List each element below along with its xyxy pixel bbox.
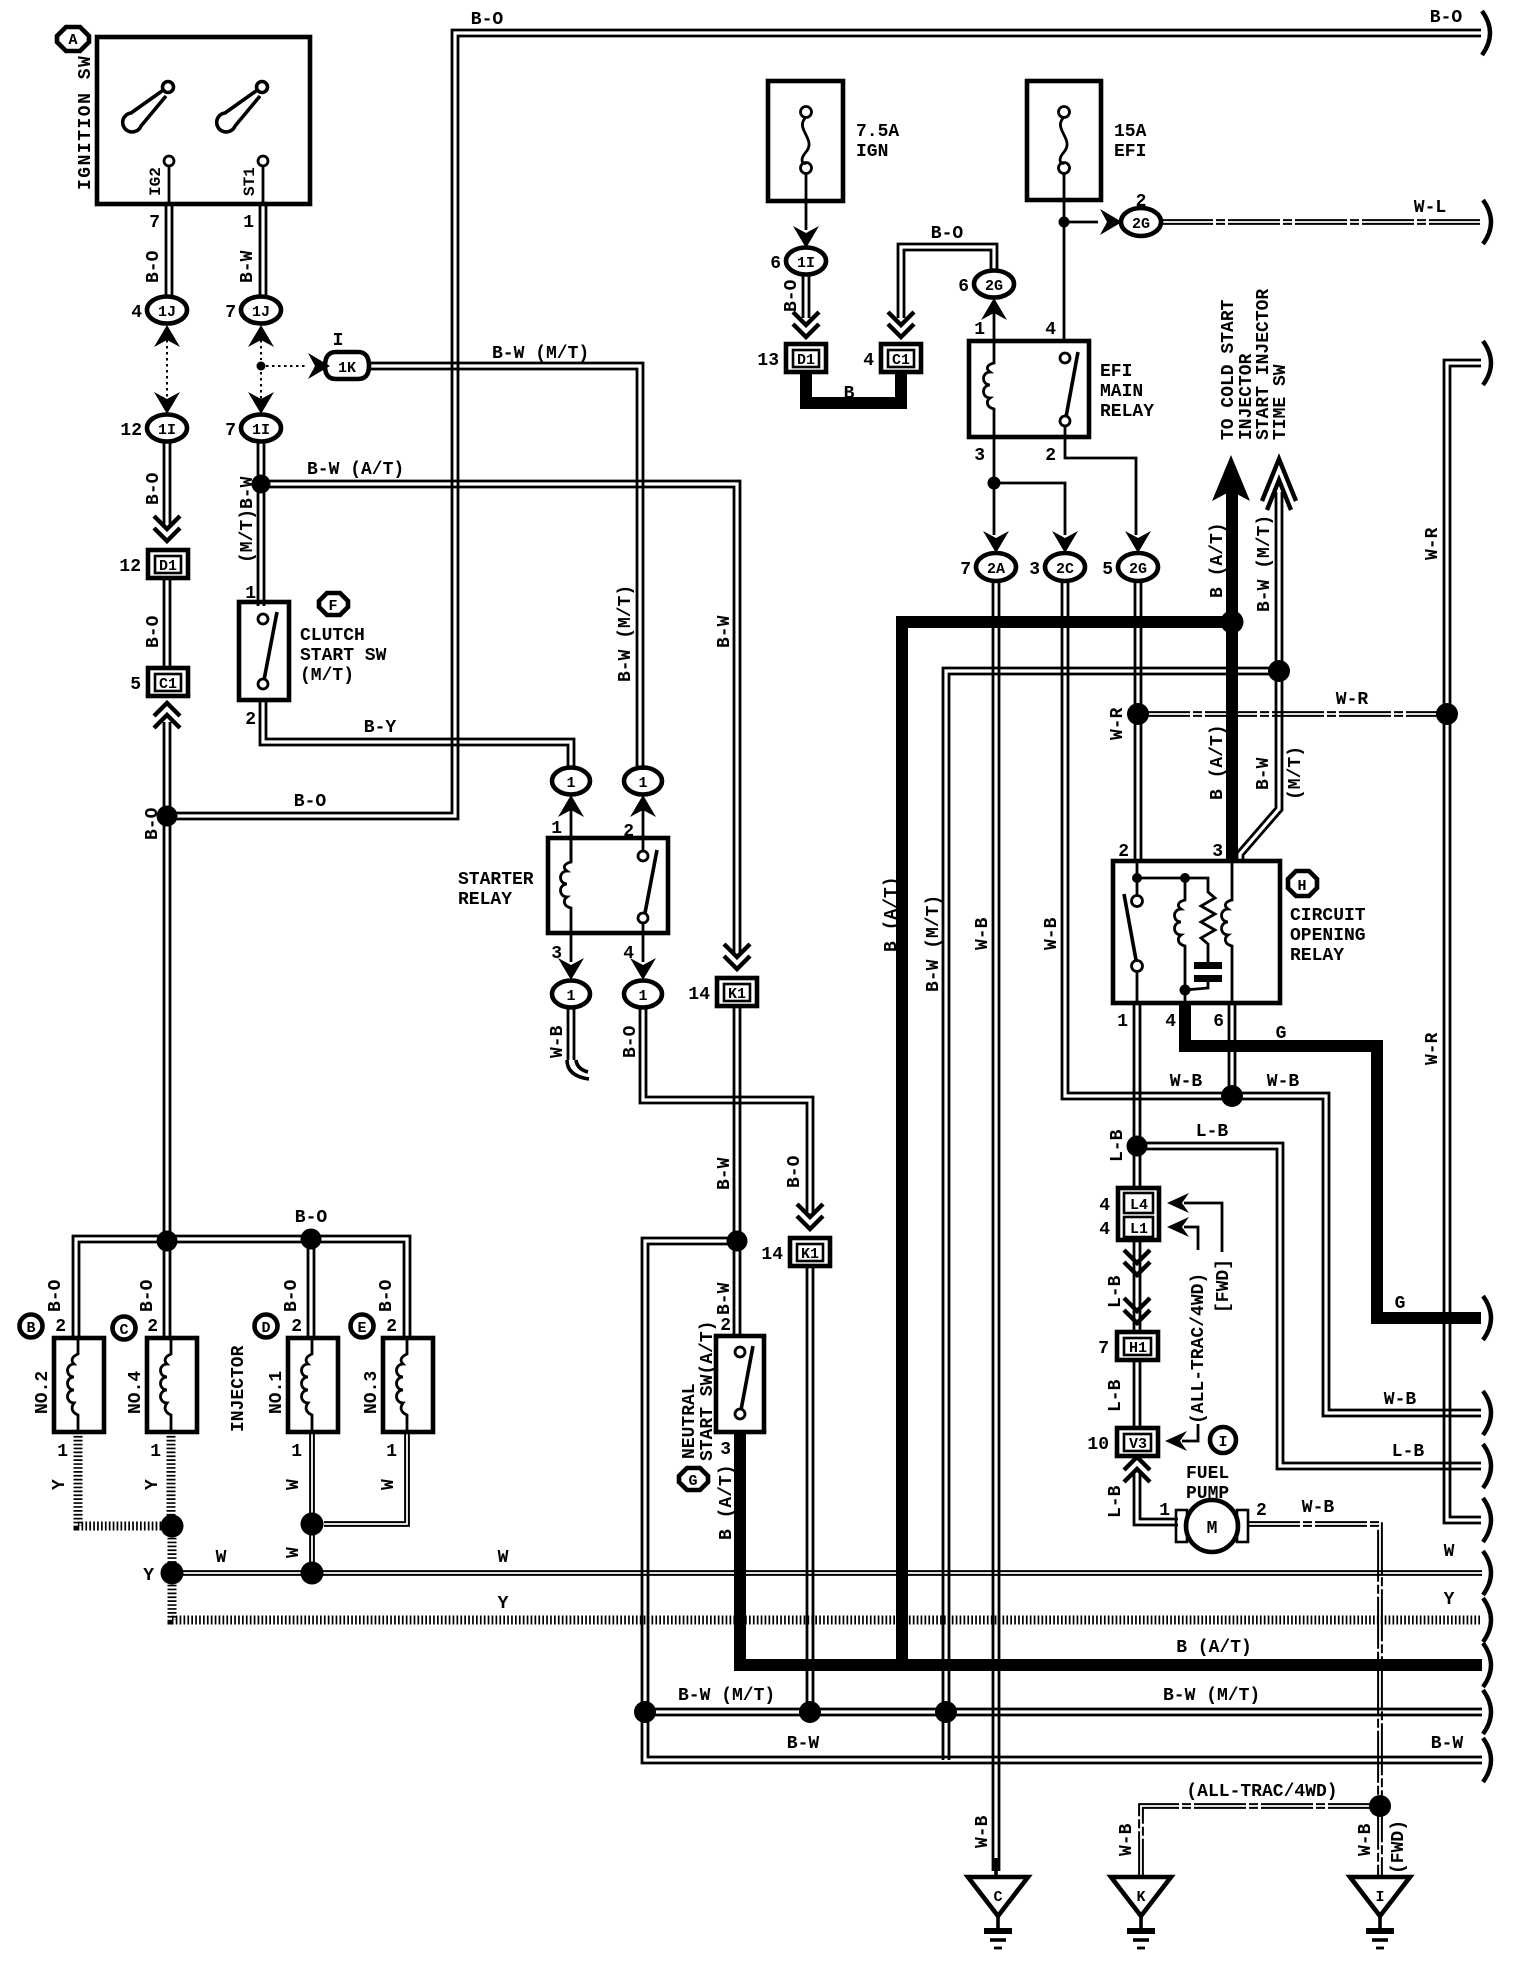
svg-text:W-B: W-B — [1170, 1072, 1203, 1092]
wire 1I to D1 — [803, 274, 809, 318]
svg-text:4: 4 — [1045, 320, 1056, 340]
svg-text:W-R: W-R — [1108, 707, 1128, 740]
wire B-O node down to injectors — [164, 816, 170, 1241]
label FUEL PUMP — [1186, 1464, 1229, 1504]
svg-text:2: 2 — [55, 1317, 66, 1337]
wire G thick from pin4 — [1185, 1003, 1481, 1318]
svg-text:B-W (M/T): B-W (M/T) — [492, 344, 589, 364]
node on ST1 dotted wire — [257, 362, 266, 371]
svg-text:D: D — [261, 1320, 270, 1337]
wire L-B across to exit — [1137, 1143, 1481, 1469]
wire 2G down to relay pin2 — [1135, 581, 1141, 861]
node B-W at 1241 — [727, 1231, 748, 1252]
svg-text:CIRCUIT: CIRCUIT — [1290, 906, 1366, 926]
svg-text:B-W: B-W — [1254, 757, 1274, 790]
svg-text:2: 2 — [386, 1317, 397, 1337]
svg-text:7: 7 — [225, 303, 236, 323]
svg-text:B: B — [26, 1320, 35, 1337]
node bus corner B-W (M/T) — [634, 1701, 656, 1723]
dotted wire 1J-1I (ST1) — [260, 340, 262, 360]
svg-text:1: 1 — [150, 1442, 161, 1462]
svg-text:4: 4 — [1165, 1012, 1176, 1032]
node B (A/T) — [1221, 611, 1244, 634]
wire B-W (M/T) across to left riser — [943, 668, 1279, 1760]
wire relay pin4 down — [642, 933, 645, 962]
svg-text:B-O: B-O — [621, 1025, 641, 1058]
wire B-Y clutch to starter relay pin1 — [260, 700, 574, 770]
svg-text:F: F — [328, 598, 337, 615]
svg-text:7: 7 — [1098, 1339, 1109, 1359]
svg-text:IGN: IGN — [856, 142, 888, 162]
wire pin6 to W-B node — [1229, 1003, 1235, 1096]
svg-text:5: 5 — [130, 675, 141, 695]
svg-text:W: W — [379, 1479, 399, 1490]
wire W-R across — [1138, 712, 1447, 716]
circuit opening relay resistor — [1185, 878, 1215, 962]
svg-text:B-W: B-W — [715, 1157, 735, 1190]
svg-text:L4: L4 — [1130, 1197, 1148, 1214]
svg-text:B-O: B-O — [785, 1155, 805, 1188]
svg-text:1I: 1I — [252, 422, 270, 439]
svg-text:B-W: B-W — [787, 1734, 820, 1754]
exit arc B-O top — [1482, 11, 1490, 55]
arrow down into 1I — [793, 226, 819, 248]
svg-text:2A: 2A — [987, 561, 1005, 578]
chevron arrow into D1 — [154, 516, 180, 541]
svg-text:L-B: L-B — [1106, 1485, 1126, 1518]
wire B (A/T) thick left riser to bus — [896, 616, 908, 1665]
injector No.1 — [267, 1338, 338, 1432]
wire pin1 down to L-B node — [1134, 1003, 1140, 1146]
svg-text:E: E — [357, 1320, 366, 1337]
svg-text:B (A/T): B (A/T) — [1208, 522, 1228, 598]
chevron arrows above H1 — [1124, 1298, 1150, 1323]
connector K1 (14, upper) — [688, 978, 757, 1006]
node pin3 splits — [988, 477, 1001, 490]
ignition sw contact IG2 — [147, 156, 174, 204]
svg-text:1J: 1J — [158, 304, 176, 321]
svg-text:1: 1 — [638, 988, 647, 1005]
svg-text:2C: 2C — [1056, 561, 1074, 578]
wire C1 down to node — [164, 722, 170, 816]
connector H1 (7) — [1098, 1332, 1158, 1360]
connector 2C (3) — [1029, 553, 1085, 581]
svg-text:B-O: B-O — [295, 1208, 328, 1228]
svg-text:2G: 2G — [985, 278, 1003, 295]
wire node down to clutch sw pin1 — [258, 484, 264, 606]
svg-text:4: 4 — [863, 351, 874, 371]
svg-text:1J: 1J — [252, 304, 270, 321]
svg-text:B (A/T): B (A/T) — [717, 1464, 737, 1540]
svg-text:Y: Y — [143, 1566, 154, 1586]
exit arc Y — [1483, 1598, 1491, 1642]
svg-text:3: 3 — [1029, 560, 1040, 580]
wire B-O node to riser — [167, 30, 1481, 819]
svg-text:IG2: IG2 — [147, 167, 165, 196]
svg-text:V3: V3 — [1129, 1436, 1147, 1453]
wire Y bus (shielded) — [172, 1573, 1482, 1620]
connector 1 (starter relay pin1) — [552, 768, 590, 795]
wire branch left to bus riser — [642, 1238, 1482, 1763]
circuit opening relay capacitor — [1185, 962, 1222, 990]
svg-text:G: G — [1276, 1024, 1287, 1044]
node Y 2 — [161, 1562, 184, 1585]
connector 2A (7) — [960, 553, 1016, 581]
connector 1 (below pin3) — [552, 981, 590, 1008]
svg-text:B-O: B-O — [282, 1279, 302, 1312]
svg-text:C: C — [119, 1322, 128, 1339]
wire W tail No.1 — [310, 1432, 314, 1573]
injector No.4 — [126, 1338, 197, 1432]
wire ST1 to 1J — [260, 204, 266, 296]
svg-text:1: 1 — [291, 1442, 302, 1462]
svg-text:B-O: B-O — [782, 279, 802, 312]
svg-text:Y: Y — [50, 1479, 70, 1490]
svg-text:G: G — [1395, 1294, 1406, 1314]
svg-text:W-B: W-B — [973, 1815, 993, 1848]
node K1 wire at bus — [799, 1701, 821, 1723]
connector K1 (14, lower) — [761, 1238, 830, 1266]
wire H1 to V3 — [1134, 1360, 1140, 1428]
svg-text:13: 13 — [757, 351, 779, 371]
svg-text:1: 1 — [243, 213, 254, 233]
svg-text:C1: C1 — [892, 352, 910, 369]
connector 1 (starter relay pin2) — [624, 768, 662, 795]
label EFI MAIN RELAY — [1100, 362, 1154, 422]
svg-text:7: 7 — [960, 560, 971, 580]
circuit opening relay coil 1 — [1137, 873, 1190, 990]
injector circle D — [255, 1315, 278, 1338]
svg-text:1: 1 — [1117, 1012, 1128, 1032]
svg-text:4: 4 — [1099, 1220, 1110, 1240]
chevron arrow into C1 — [888, 312, 914, 337]
exit arc W-B — [1483, 1391, 1491, 1435]
wire 1I down (IG2) — [164, 441, 170, 528]
wire Y tail No.2 (shielded) — [78, 1432, 169, 1526]
svg-text:B-W (M/T): B-W (M/T) — [616, 585, 636, 682]
exit arc B-W (M/T) — [1483, 1690, 1491, 1734]
wire K1 upper down to node — [734, 1006, 740, 1241]
wire 2A down to ground C — [993, 581, 999, 1871]
svg-text:W-R: W-R — [1336, 690, 1369, 710]
exit arc W-L — [1483, 200, 1491, 244]
svg-text:7: 7 — [149, 213, 160, 233]
svg-text:START SW(A/T): START SW(A/T) — [698, 1321, 718, 1461]
arrow B-W (M/T) up (open) — [1262, 459, 1296, 510]
svg-text:7: 7 — [225, 421, 236, 441]
wire fuse to 1I — [805, 201, 808, 230]
node B-O at No.1 drop — [301, 1229, 322, 1250]
ground K — [1111, 1877, 1171, 1948]
connector C1 (4) — [863, 344, 921, 372]
node B-O at No.4 drop — [157, 1231, 178, 1252]
svg-text:L1: L1 — [1130, 1221, 1148, 1238]
connector V3 (10) — [1087, 1428, 1158, 1456]
svg-text:1: 1 — [1159, 1501, 1170, 1521]
svg-text:B-W (M/T): B-W (M/T) — [924, 895, 944, 992]
label TO COLD START INJECTOR / START INJECTOR TIME SW — [1219, 289, 1291, 440]
svg-text:I: I — [1375, 1889, 1384, 1906]
neutral start switch G — [716, 1336, 764, 1432]
svg-text:Y: Y — [143, 1479, 163, 1490]
arrow up into 1J (ST1) — [248, 325, 274, 347]
svg-text:4: 4 — [1099, 1196, 1110, 1216]
wire B (A/T) neutral sw to bus — [734, 1432, 746, 1671]
dotted wire node to down arrow — [260, 372, 262, 400]
label CIRCUIT OPENING RELAY — [1290, 906, 1366, 966]
wire B-O injector distribution — [73, 1236, 410, 1340]
exit arc G — [1483, 1296, 1491, 1340]
svg-text:1: 1 — [57, 1442, 68, 1462]
svg-text:Y: Y — [1444, 1590, 1455, 1610]
svg-text:2: 2 — [291, 1317, 302, 1337]
svg-text:NO.3: NO.3 — [362, 1371, 382, 1414]
svg-text:IGNITION SW: IGNITION SW — [76, 55, 96, 190]
node W at No.1/No.3 — [301, 1513, 324, 1536]
svg-text:FUEL: FUEL — [1186, 1464, 1229, 1484]
arrow into 2G (W-L) — [1100, 209, 1122, 235]
svg-text:1: 1 — [974, 320, 985, 340]
wire relay pin3 down — [570, 933, 573, 962]
wire B-O C1 to 2G — [898, 244, 997, 318]
svg-text:H1: H1 — [1129, 1340, 1147, 1357]
wire K1 down to B-W(M/T) bus — [807, 1266, 813, 1712]
svg-text:W: W — [284, 1479, 304, 1490]
svg-text:1I: 1I — [158, 422, 176, 439]
svg-text:NO.2: NO.2 — [33, 1371, 53, 1414]
svg-text:TIME SW: TIME SW — [1271, 364, 1291, 440]
arrow down into oval pin3 — [558, 958, 584, 980]
arrow ref to V3 — [1165, 1424, 1198, 1451]
connector 1 (below pin4) — [624, 981, 662, 1008]
relay circle H — [1288, 871, 1317, 896]
svg-text:[FWD]: [FWD] — [1214, 1259, 1234, 1313]
svg-text:W: W — [216, 1548, 227, 1568]
svg-text:12: 12 — [119, 557, 141, 577]
svg-text:2: 2 — [147, 1317, 158, 1337]
wire B-W (M/T) from 1K to starter relay pin2 — [369, 363, 643, 770]
connector C1 (5) — [130, 668, 188, 696]
connector 2G (2) — [1121, 192, 1161, 236]
svg-text:W: W — [1444, 1542, 1455, 1562]
arrow down into 2A — [983, 531, 1009, 553]
wire node to 2G arrow — [1064, 221, 1098, 224]
wire drop to No.1 — [308, 1239, 314, 1340]
svg-text:B-W: B-W — [1431, 1734, 1464, 1754]
ignition switch A: circle label — [57, 27, 89, 51]
svg-text:MAIN: MAIN — [1100, 382, 1143, 402]
clutch sw circle F — [319, 593, 348, 615]
svg-text:EFI: EFI — [1114, 142, 1146, 162]
wire D1 to C1 — [164, 578, 170, 668]
fuse 15A EFI — [1027, 81, 1101, 200]
arrow B (A/T) up (filled) — [1212, 455, 1250, 501]
arrow ref to L1 (ALL-TRAC) — [1167, 1217, 1198, 1250]
chevron arrow up into C1 — [154, 703, 180, 728]
svg-text:2G: 2G — [1129, 561, 1147, 578]
svg-text:(FWD): (FWD) — [1389, 1820, 1409, 1874]
node W-R at right riser — [1436, 703, 1458, 725]
svg-text:B-O: B-O — [294, 792, 327, 812]
svg-text:L-B: L-B — [1196, 1122, 1229, 1142]
svg-text:W: W — [284, 1547, 304, 1558]
svg-text:1I: 1I — [797, 255, 815, 272]
svg-text:1: 1 — [566, 775, 575, 792]
svg-text:W-B: W-B — [1042, 917, 1062, 950]
circuit opening relay switch branch — [1124, 861, 1143, 1003]
ignition sw contact ST1 — [241, 156, 268, 204]
svg-text:L-B: L-B — [1392, 1442, 1425, 1462]
arrow into 1K — [308, 353, 330, 379]
wire arrow to relay pin2 — [642, 810, 645, 851]
circuit opening relay box — [1113, 861, 1280, 1003]
svg-text:1: 1 — [638, 775, 647, 792]
node W-R on 2G wire — [1127, 703, 1149, 725]
svg-text:B (A/T): B (A/T) — [882, 876, 902, 952]
svg-text:6: 6 — [770, 254, 781, 274]
svg-text:2: 2 — [1256, 1501, 1267, 1521]
arrow up into oval pin2 — [630, 795, 656, 817]
svg-text:A: A — [68, 32, 77, 49]
svg-text:6: 6 — [958, 277, 969, 297]
W-B tail hook — [567, 1060, 589, 1079]
svg-text:B-O: B-O — [138, 1279, 158, 1312]
wire W-B tail — [568, 1007, 574, 1060]
wire 2C down then W-B across — [1062, 581, 1481, 1416]
node ALL-TRAC at I riser — [1369, 1795, 1391, 1817]
svg-text:12: 12 — [120, 421, 142, 441]
starter relay switch — [638, 850, 657, 933]
wire B (A/T) arrow shaft up — [1226, 490, 1238, 622]
svg-text:W-L: W-L — [1414, 198, 1446, 218]
starter relay coil — [561, 838, 572, 933]
svg-text:CLUTCH: CLUTCH — [300, 626, 365, 646]
wire IG2 to 1J — [166, 204, 172, 296]
node B-W (M/T) — [1268, 660, 1290, 682]
node W 3 — [301, 1562, 324, 1585]
label CLUTCH START SW (M/T) — [300, 626, 387, 686]
wire arrow to relay pin1 — [570, 810, 573, 862]
svg-text:STARTER: STARTER — [458, 870, 534, 890]
svg-text:RELAY: RELAY — [458, 890, 512, 910]
svg-text:B-W: B-W — [715, 1282, 735, 1315]
wire V3 to fuel pump pin1 — [1134, 1474, 1178, 1525]
connector 1J (ST1) — [225, 297, 281, 324]
exit arc L-B — [1483, 1444, 1491, 1488]
svg-text:B (A/T): B (A/T) — [1176, 1638, 1252, 1658]
chevron arrow into K1 (upper) — [724, 944, 750, 969]
exit arc W-R in — [1483, 341, 1491, 385]
wire Y between nodes (shielded) — [168, 1526, 177, 1573]
svg-text:W-B: W-B — [1302, 1498, 1335, 1518]
wire W tail No.3 — [324, 1432, 409, 1526]
svg-text:B-O: B-O — [144, 472, 164, 505]
svg-text:B-O: B-O — [46, 1279, 66, 1312]
svg-text:K: K — [1136, 1889, 1145, 1906]
connector 1K — [325, 331, 369, 379]
arrow down into 2C — [1052, 531, 1078, 553]
injector circle C — [113, 1317, 136, 1340]
svg-text:OPENING: OPENING — [1290, 926, 1366, 946]
chevron arrows below L1 — [1124, 1250, 1150, 1275]
svg-text:B-W (M/T): B-W (M/T) — [1255, 515, 1275, 612]
injector circle B — [20, 1315, 43, 1338]
neutral sw circle G — [679, 1468, 708, 1490]
svg-text:M: M — [1207, 1519, 1218, 1539]
EFI main relay coil — [984, 341, 995, 437]
label STARTER RELAY — [458, 870, 534, 910]
chevron arrow into K1 (lower) — [797, 1204, 823, 1229]
wire pin2 to 2G arrow — [1065, 437, 1136, 535]
node Y 1 — [161, 1515, 184, 1538]
svg-text:H: H — [1297, 878, 1306, 895]
svg-text:B-W: B-W — [715, 615, 735, 648]
bus B (A/T) thick bottom — [734, 1659, 1482, 1671]
wire B-O pin4 to K1 — [640, 1007, 813, 1212]
wire W bus — [172, 1571, 1482, 1575]
svg-text:K1: K1 — [801, 1246, 819, 1263]
wire 1I down (ST1) to node — [258, 441, 264, 484]
wire node to 2C arrow — [994, 483, 1065, 535]
svg-text:15A: 15A — [1114, 122, 1147, 142]
wire B-W (M/T) shaft — [1276, 492, 1282, 671]
svg-text:(ALL-TRAC/4WD): (ALL-TRAC/4WD) — [1186, 1782, 1337, 1802]
svg-text:B-O: B-O — [144, 250, 164, 283]
label 7.5A IGN — [856, 122, 899, 162]
svg-text:3: 3 — [974, 446, 985, 466]
svg-text:B-O: B-O — [931, 224, 964, 244]
circuit opening relay coil 2 — [1222, 861, 1233, 1003]
wire B thick U D1-C1 — [806, 372, 901, 403]
wire drop to No.4 — [164, 1241, 170, 1340]
svg-text:1: 1 — [566, 988, 575, 1005]
bus B-W — [0, 0, 1, 1]
wire L1 to H1 — [1134, 1240, 1140, 1332]
connector 1I (ST1) — [225, 415, 281, 442]
arrow down into oval pin4 — [630, 958, 656, 980]
clutch start switch F — [239, 602, 289, 700]
node coil1 bottom — [1180, 985, 1191, 996]
svg-text:B-W: B-W — [238, 250, 258, 283]
svg-text:(M/T)B-W: (M/T)B-W — [238, 476, 258, 563]
svg-text:RELAY: RELAY — [1100, 402, 1154, 422]
svg-text:6: 6 — [1213, 1012, 1224, 1032]
svg-text:2: 2 — [720, 1316, 731, 1336]
wire fuse to relay pin4 — [1063, 200, 1066, 341]
svg-text:2: 2 — [245, 710, 256, 730]
svg-text:B-O: B-O — [144, 615, 164, 648]
connector 2G (5) — [1102, 553, 1158, 581]
svg-text:NEUTRAL: NEUTRAL — [680, 1383, 700, 1459]
svg-text:NO.1: NO.1 — [267, 1371, 287, 1414]
svg-text:W-B: W-B — [548, 1025, 568, 1058]
svg-text:G: G — [688, 1473, 697, 1490]
chevron arrow into D1 — [793, 312, 819, 337]
svg-text:C: C — [993, 1889, 1002, 1906]
svg-text:B-W (M/T): B-W (M/T) — [678, 1686, 775, 1706]
wire W-R right riser — [1444, 360, 1481, 1523]
svg-text:B-O: B-O — [471, 10, 504, 30]
svg-text:I: I — [1218, 1434, 1227, 1451]
exit arc W — [1483, 1551, 1491, 1595]
arrow down into 1I (IG2) — [154, 392, 180, 414]
injector No.3 — [362, 1338, 433, 1432]
label NEUTRAL START SW(A/T) — [680, 1321, 718, 1461]
svg-text:3: 3 — [720, 1440, 731, 1460]
svg-text:I: I — [333, 331, 344, 351]
svg-text:C1: C1 — [159, 676, 177, 693]
svg-text:2G: 2G — [1132, 216, 1150, 233]
